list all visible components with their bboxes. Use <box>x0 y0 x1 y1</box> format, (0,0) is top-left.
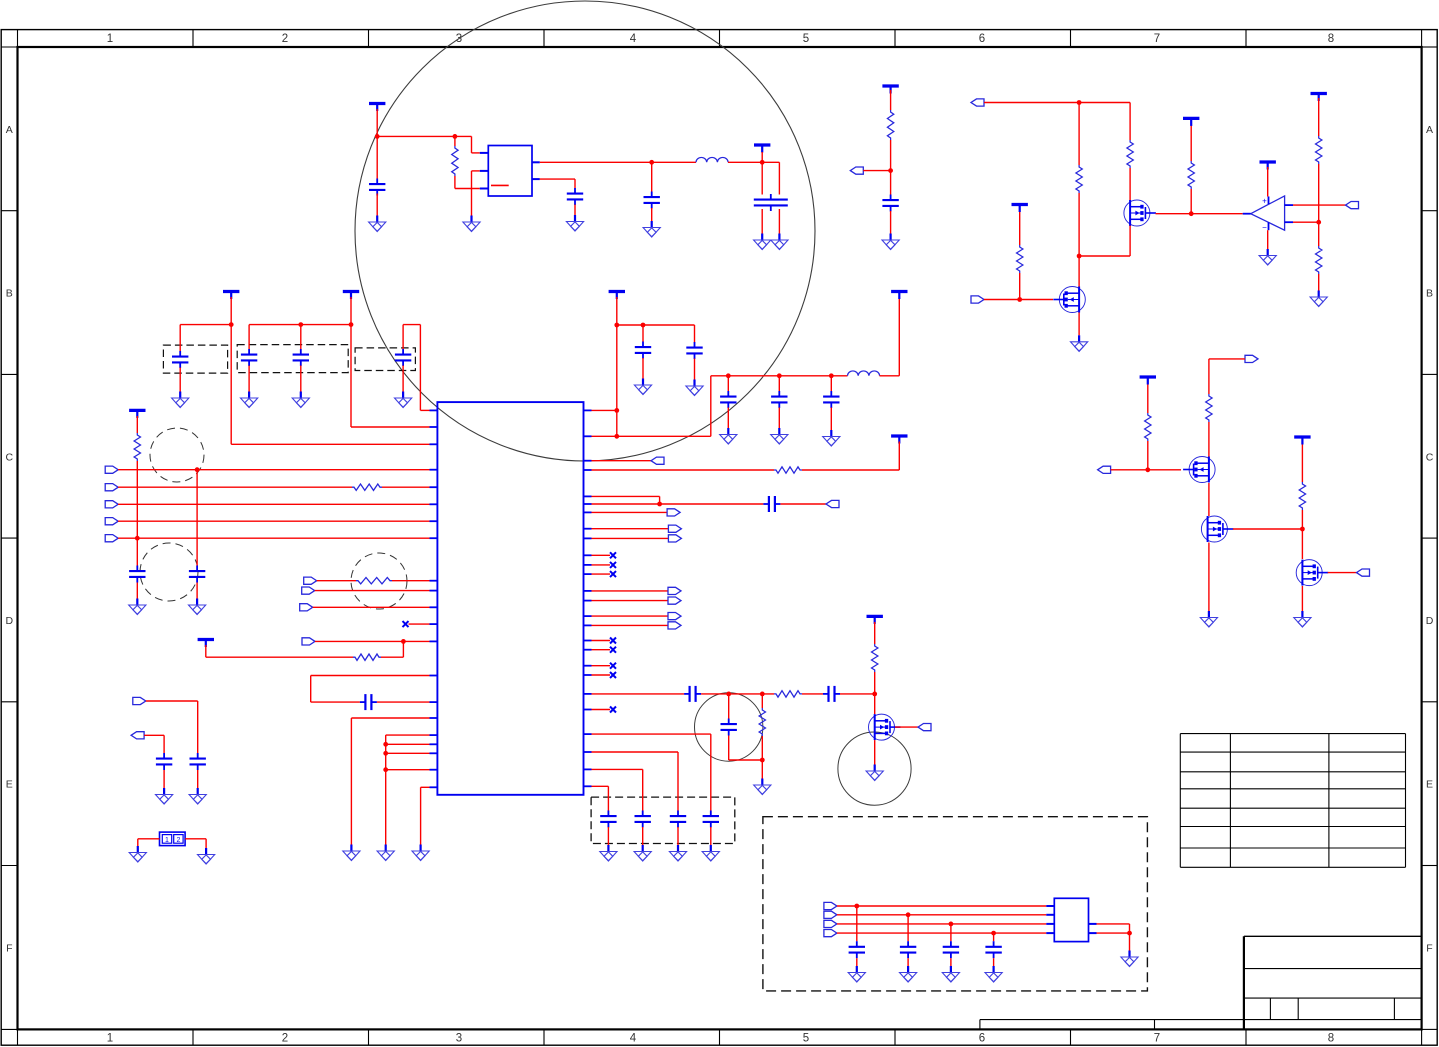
svg-text:1: 1 <box>165 837 169 844</box>
svg-text:4: 4 <box>630 1033 637 1045</box>
svg-text:7: 7 <box>1154 33 1160 45</box>
svg-text:6: 6 <box>979 1033 985 1045</box>
svg-text:A: A <box>1426 124 1433 136</box>
svg-text:−: − <box>1262 223 1267 232</box>
svg-text:3: 3 <box>456 1033 462 1045</box>
svg-text:2: 2 <box>282 1033 288 1045</box>
svg-text:2: 2 <box>176 837 180 844</box>
svg-text:C: C <box>1426 451 1434 463</box>
svg-text:A: A <box>6 124 13 136</box>
svg-text:D: D <box>6 615 14 627</box>
svg-text:5: 5 <box>803 1033 809 1045</box>
svg-text:7: 7 <box>1154 1033 1160 1045</box>
svg-text:2: 2 <box>282 33 288 45</box>
svg-text:5: 5 <box>803 33 809 45</box>
svg-text:E: E <box>6 779 13 791</box>
svg-text:E: E <box>1426 779 1433 791</box>
svg-text:B: B <box>1426 288 1433 300</box>
svg-text:1: 1 <box>107 1033 113 1045</box>
svg-text:D: D <box>1426 615 1434 627</box>
svg-text:8: 8 <box>1328 1033 1334 1045</box>
svg-text:C: C <box>6 451 14 463</box>
svg-text:6: 6 <box>979 33 985 45</box>
svg-text:1: 1 <box>107 33 113 45</box>
svg-text:+: + <box>1262 197 1267 206</box>
svg-text:B: B <box>6 288 13 300</box>
svg-text:4: 4 <box>630 33 637 45</box>
svg-text:F: F <box>1426 942 1432 954</box>
svg-text:8: 8 <box>1328 33 1334 45</box>
svg-text:F: F <box>6 942 12 954</box>
